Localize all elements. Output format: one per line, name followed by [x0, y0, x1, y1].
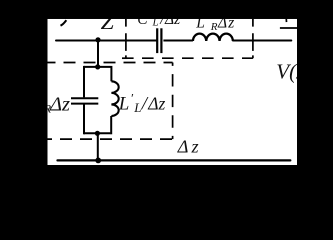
svg-text:Δz: Δz — [147, 93, 165, 113]
inductor LRdz coil — [193, 34, 233, 41]
current arrow line (cropped) — [280, 27, 297, 29]
svg-text:′: ′ — [130, 90, 133, 105]
right branch upper wire — [110, 66, 112, 81]
wire top segment middle — [163, 40, 193, 42]
wire top segment right — [233, 40, 291, 42]
node dot on main wire — [95, 37, 100, 42]
left branch lower wire — [83, 104, 85, 134]
box top edge — [84, 66, 111, 68]
shunt capacitor CRdz plates — [71, 97, 98, 99]
capacitor C'L/dz plates — [156, 28, 158, 53]
svg-text:Δz: Δz — [177, 137, 202, 157]
shunt wire upper — [97, 41, 99, 67]
dashed shunt box top edge — [48, 62, 173, 64]
svg-text:Δz: Δz — [49, 93, 70, 115]
node dot at box top — [95, 64, 100, 69]
wire top segment left — [56, 40, 156, 42]
white figure area — [48, 19, 298, 165]
bottom wire — [58, 159, 291, 161]
dashed shunt box bottom edge — [48, 138, 173, 140]
black crop bands drawn on top — [0, 0, 333, 19]
dashed shunt box right edge — [172, 63, 174, 140]
left branch upper wire — [83, 66, 85, 98]
dashed series box left edge — [125, 19, 127, 58]
shunt inductor L'L/dz coil — [111, 81, 118, 116]
node dot on bottom wire — [95, 158, 101, 164]
svg-text:L: L — [118, 93, 130, 114]
cropped character tail top-left — [61, 20, 67, 26]
svg-text:R: R — [210, 21, 218, 33]
text remnant tick above arrow — [285, 19, 287, 22]
dashed series box right edge — [252, 19, 254, 58]
node dot at box bottom — [95, 131, 100, 136]
right branch lower wire — [110, 116, 112, 134]
dashed series box bottom edge — [122, 57, 253, 59]
shunt wire lower — [97, 133, 99, 160]
box bottom edge — [84, 132, 110, 134]
svg-text:L: L — [133, 100, 141, 115]
